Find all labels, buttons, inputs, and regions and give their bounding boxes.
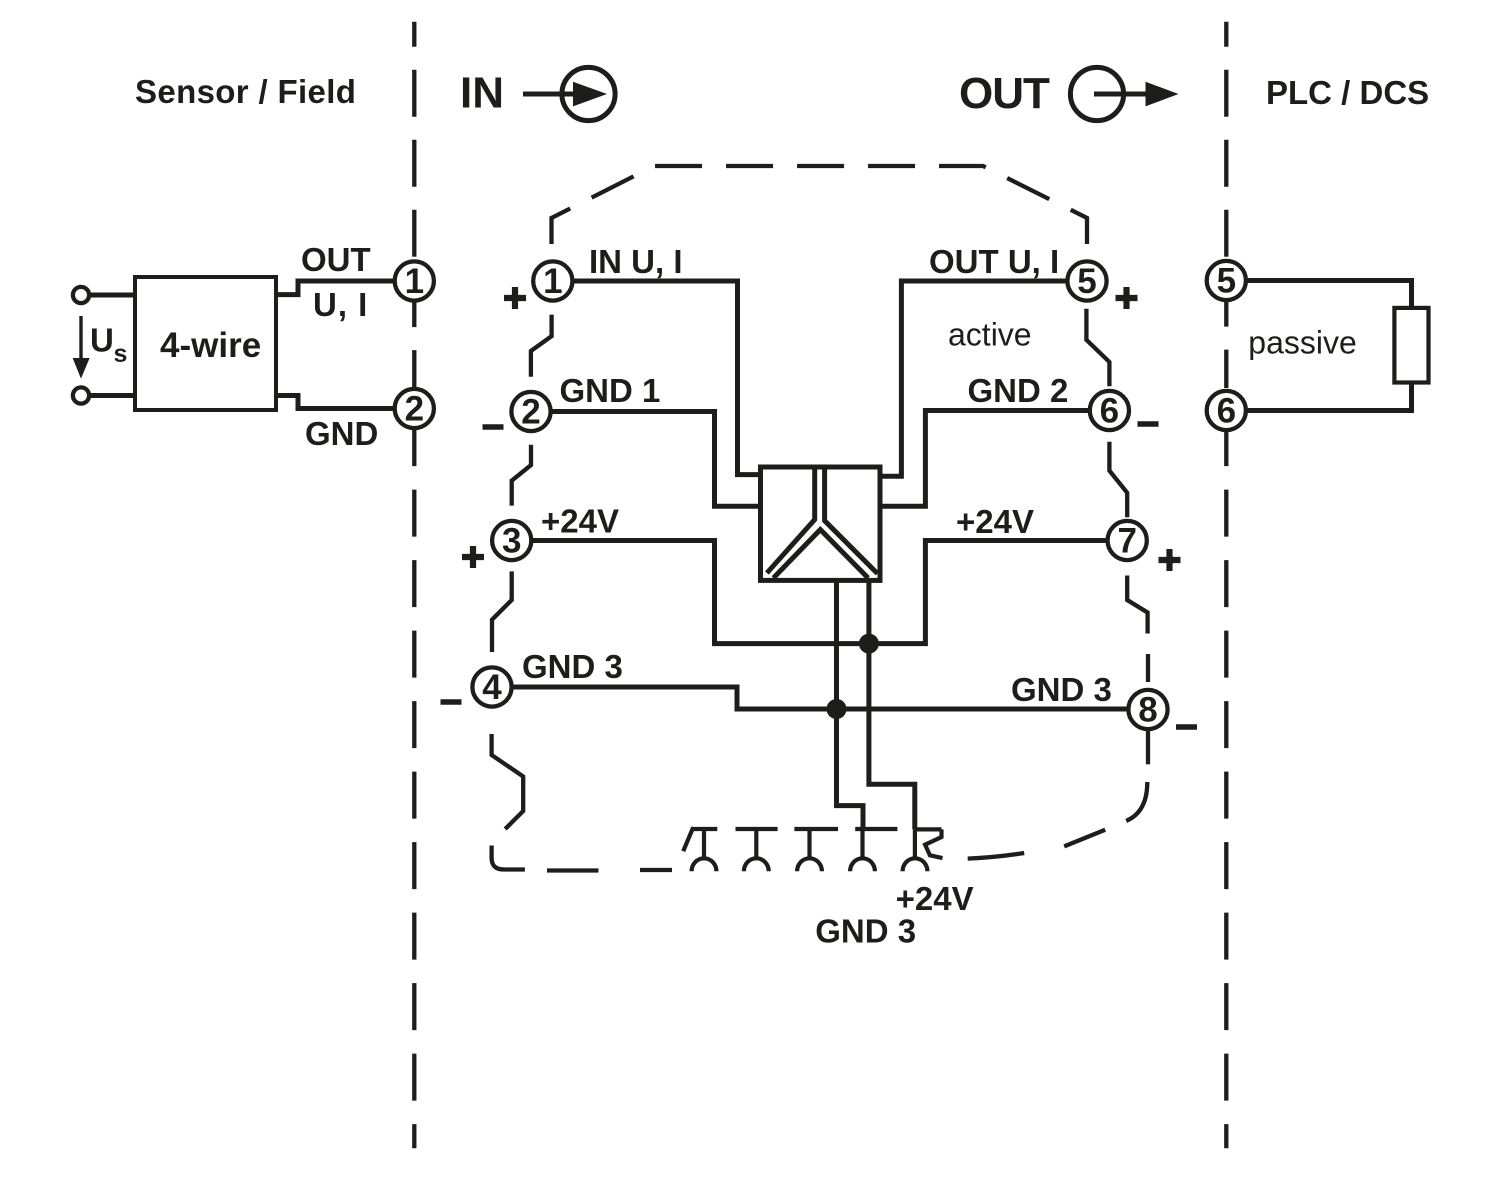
amplifier box U1 (761, 467, 881, 580)
terminal 5 right (1207, 261, 1246, 301)
wire OUT U,I to amplifier (882, 281, 1066, 476)
svg-text:GND 3: GND 3 (815, 912, 916, 949)
svg-text:1: 1 (405, 262, 424, 301)
svg-text:GND 3: GND 3 (522, 648, 623, 685)
svg-text:3: 3 (502, 522, 521, 561)
amplifier isolation tent (773, 530, 868, 578)
svg-text:OUT U, I: OUT U, I (929, 243, 1059, 280)
svg-text:+24V: +24V (956, 503, 1034, 540)
amplifier isolation channel left (767, 467, 815, 573)
terminal 7 middle (1108, 521, 1147, 561)
wire box to terminal 1 (276, 281, 393, 295)
zigzag connector 2-3 (512, 445, 531, 506)
sensor terminal circle bottom (73, 387, 89, 403)
svg-text:U: U (90, 322, 114, 359)
wire load to terminal 6 right (1248, 383, 1412, 411)
svg-text:IN: IN (460, 69, 504, 118)
terminal 4 middle (472, 667, 511, 707)
device outline bottom-left corner (492, 846, 525, 870)
svg-text:8: 8 (1138, 691, 1157, 730)
bus connector 3 (794, 829, 838, 871)
wire GND 2 to amplifier (882, 411, 1088, 507)
bus connector 1 (683, 827, 717, 871)
svg-text:6: 6 (1100, 392, 1119, 431)
device outline bottom-right dashed curve (968, 731, 1148, 859)
4-wire box (135, 277, 276, 410)
Us arrow (73, 316, 90, 379)
svg-text:4: 4 (482, 668, 502, 707)
terminal 6 middle (1090, 391, 1129, 431)
svg-text:s: s (114, 340, 128, 368)
svg-text:7: 7 (1117, 522, 1136, 561)
terminal 3 middle (492, 521, 531, 561)
svg-text:5: 5 (1077, 262, 1096, 301)
wire stub above terminal 8 (1146, 654, 1150, 682)
plus at terminal 1 (504, 287, 526, 309)
svg-text:U, I: U, I (313, 286, 368, 323)
svg-text:6: 6 (1217, 392, 1236, 431)
svg-text:4-wire: 4-wire (160, 326, 261, 365)
right boundary dashed line (1224, 22, 1228, 1149)
junction dot +24V rail (859, 634, 879, 654)
svg-text:GND: GND (305, 415, 378, 452)
zigzag connector 3-4 (492, 571, 512, 652)
svg-text:1: 1 (543, 262, 562, 301)
plus at terminal 7 (1159, 549, 1181, 571)
svg-text:Sensor / Field: Sensor / Field (135, 73, 356, 110)
svg-text:OUT: OUT (301, 241, 371, 278)
minus at terminal 8 (1176, 724, 1197, 730)
terminal 5 middle (1067, 261, 1106, 301)
wire amplifier bottom-left to bus connector 4 (837, 578, 864, 829)
wire sensor top to box (89, 293, 137, 298)
device outline top dashed (552, 166, 1088, 244)
OUT arrow symbol (1070, 67, 1178, 120)
zigzag connector below 4 (492, 734, 524, 829)
zigzag connector 6-7 (1109, 442, 1127, 517)
wire GND 3 rail terminal 4 to terminal 8 (513, 687, 1127, 709)
svg-text:IN U, I: IN U, I (589, 243, 683, 280)
terminal 1 left (395, 261, 434, 301)
svg-text:passive: passive (1248, 325, 1357, 361)
terminal 6 right (1207, 391, 1246, 431)
minus at terminal 2 (483, 424, 504, 430)
wire terminal 5 right to load (1248, 281, 1412, 308)
amplifier isolation channel right (825, 467, 878, 574)
bus connector 5 (903, 829, 943, 871)
sensor terminal circle top (73, 287, 89, 303)
wire sensor bottom to box (89, 393, 137, 398)
minus at terminal 4 (441, 699, 462, 705)
minus at terminal 6 (1138, 421, 1159, 427)
svg-text:active: active (948, 317, 1032, 353)
device outline bottom dashes (547, 868, 599, 872)
svg-text:GND 2: GND 2 (968, 372, 1069, 409)
bus connector 2 (736, 829, 778, 871)
plus at terminal 3 (462, 546, 484, 568)
wire box to terminal 2 (276, 396, 393, 409)
IN arrow symbol (523, 67, 615, 120)
svg-text:2: 2 (521, 393, 540, 432)
zigzag connector 5-6 (1086, 309, 1109, 387)
wire IN U,I to amplifier (574, 281, 759, 475)
wire amplifier bottom-right to bus connector 5 (869, 578, 915, 829)
junction dot GND 3 rail (827, 699, 847, 719)
left boundary dashed line (412, 22, 416, 1149)
terminal 2 left (395, 389, 434, 429)
wire GND 1 to amplifier (552, 412, 758, 507)
bus connector 4 (850, 829, 897, 871)
terminal 2 middle (511, 392, 550, 432)
load resistor (1394, 308, 1428, 383)
svg-text:+24V: +24V (541, 503, 619, 540)
terminal 1 middle (533, 261, 572, 301)
zigzag connector 1-2 (531, 315, 552, 377)
svg-text:2: 2 (405, 390, 424, 429)
plus at terminal 5 (1116, 287, 1138, 309)
terminal 8 middle (1128, 690, 1167, 730)
svg-text:GND 3: GND 3 (1011, 671, 1112, 708)
svg-text:5: 5 (1217, 262, 1236, 301)
wire +24V rail terminal 3 to terminal 7 (533, 541, 1106, 644)
svg-text:OUT: OUT (959, 69, 1050, 118)
zigzag connector 7-8 (1127, 576, 1147, 634)
svg-text:PLC / DCS: PLC / DCS (1266, 74, 1429, 111)
svg-text:GND 1: GND 1 (560, 372, 661, 409)
